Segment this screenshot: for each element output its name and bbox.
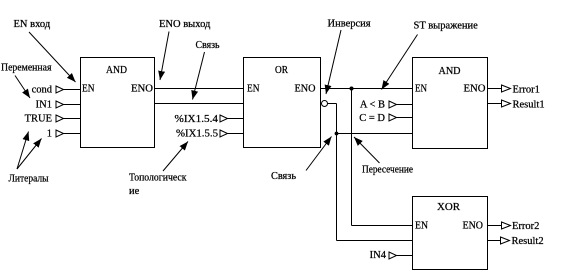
input connector triangle A < B: [389, 101, 397, 108]
block XOR (bottom right XOR function block): [413, 197, 488, 270]
callout label Svyaz bottom: [271, 171, 296, 182]
svg-text:Error1: Error1: [513, 85, 540, 96]
output label Result2: [512, 236, 544, 247]
wire A < B to AND2: [397, 104, 413, 106]
callout label Literaly: [9, 174, 49, 185]
output connector triangle Error2: [502, 222, 511, 229]
callout label Topologicheskie line 1: [129, 173, 187, 184]
wire AND1 ENO to OR EN: [155, 88, 244, 90]
svg-text:ENO: ENO: [131, 84, 153, 95]
svg-text:AND: AND: [106, 65, 127, 76]
callout label Topologicheskie line 2: [129, 186, 140, 197]
wire AND2 ENO output: [488, 88, 502, 90]
input connector triangle TRUE: [56, 115, 64, 122]
svg-text:Result2: Result2: [512, 236, 544, 247]
input label %IX1.5.4: [175, 114, 219, 125]
svg-text:Литералы: Литералы: [9, 174, 49, 185]
wire AND2 result output: [488, 103, 502, 105]
svg-text:OR: OR: [275, 65, 288, 76]
svg-text:A < B: A < B: [360, 100, 385, 111]
svg-text:Error2: Error2: [512, 221, 539, 232]
block AND1 (left AND function block): [81, 58, 155, 148]
callout arrow ENO vyhod to ENO wire: [160, 32, 169, 81]
input label C = D: [359, 113, 385, 124]
wire vertical from inverted output down: [336, 104, 338, 241]
callout arrow Peresechenie to wire crossing: [354, 137, 380, 163]
svg-text:ие: ие: [129, 186, 140, 197]
wire OR ENO to AND2 EN: [321, 88, 413, 90]
input label IN1: [36, 100, 52, 111]
callout arrow Svyaz bottom to junction: [306, 137, 332, 171]
wire IN4 to XOR: [397, 255, 413, 257]
junction node at AND2 bottom input branch: [335, 132, 339, 136]
svg-text:Пересечение: Пересечение: [362, 165, 413, 176]
svg-text:Переменная: Переменная: [1, 63, 52, 74]
callout arrow Peremennaya to variable inputs: [15, 76, 30, 99]
block OR (middle OR function block): [244, 58, 321, 148]
svg-text:ENO: ENO: [464, 84, 486, 95]
svg-text:ENO выход: ENO выход: [159, 19, 211, 30]
wire TRUE to AND1: [64, 118, 81, 120]
svg-text:EN: EN: [415, 221, 428, 232]
svg-text:XOR: XOR: [437, 202, 460, 213]
output connector triangle Result1: [502, 100, 511, 107]
input label TRUE: [25, 114, 52, 125]
wire to AND2 bottom input: [337, 133, 413, 135]
input label %IX1.5.5: [176, 129, 218, 140]
svg-text:%IX1.5.4: %IX1.5.4: [175, 114, 219, 125]
wire AND1 output to OR input 2: [155, 103, 244, 105]
input connector triangle 1: [56, 130, 64, 137]
svg-text:ST выражение: ST выражение: [414, 21, 479, 32]
callout label ENO vyhod: [159, 19, 211, 30]
wire C = D to AND2: [397, 117, 413, 119]
svg-text:TRUE: TRUE: [25, 114, 52, 125]
callout label Svyaz top: [196, 40, 220, 51]
svg-text:Топологическ: Топологическ: [129, 173, 187, 184]
input connector triangle cond: [56, 86, 64, 93]
callout arrow Inversiya to inversion circle: [326, 30, 341, 94]
svg-text:C = D: C = D: [359, 113, 385, 124]
input connector triangle IN4: [389, 252, 397, 259]
svg-text:ENO: ENO: [463, 221, 484, 232]
wire IN1 to AND1: [64, 104, 81, 106]
callout arrow EN vhod to AND1 EN: [29, 32, 76, 82]
callout label Peremennaya: [1, 63, 52, 74]
input label cond: [32, 85, 53, 96]
svg-text:EN: EN: [247, 84, 260, 95]
wire horizontal to XOR EN: [352, 225, 413, 227]
svg-text:Связь: Связь: [196, 40, 220, 51]
inversion circle on OR output: [322, 101, 328, 107]
wire %IX1.5.5 to OR: [228, 133, 244, 135]
callout arrow ST vyrazhenie to A < B expression: [382, 35, 418, 90]
input label IN4: [370, 250, 387, 261]
input label A < B: [360, 100, 385, 111]
svg-text:%IX1.5.5: %IX1.5.5: [176, 129, 218, 140]
junction node on ENO wire: [350, 87, 354, 91]
wire %IX1.5.4 to OR: [228, 118, 244, 120]
callout arrow Topologicheskie to %IX1.5.5: [163, 142, 188, 172]
svg-text:Инверсия: Инверсия: [328, 19, 371, 30]
svg-text:EN: EN: [82, 84, 95, 95]
wire XOR result output: [488, 240, 501, 242]
wire cond to AND1 EN: [64, 89, 81, 91]
svg-text:AND: AND: [439, 66, 461, 77]
input connector triangle %IX1.5.5: [220, 130, 228, 137]
wire OR inverted output horizontal stub: [328, 103, 337, 105]
output connector triangle Result2: [501, 237, 510, 244]
callout label Inversiya: [328, 19, 371, 30]
callout arrow Literaly to TRUE literal: [17, 132, 29, 170]
svg-text:Связь: Связь: [271, 171, 296, 182]
input connector triangle %IX1.5.4: [220, 115, 228, 122]
input label 1: [47, 129, 52, 140]
wire XOR ENO output: [488, 225, 502, 227]
output label Result1: [513, 100, 545, 111]
block AND2 (right AND function block): [413, 58, 488, 149]
output label Error1: [513, 85, 540, 96]
input connector triangle C = D: [389, 114, 397, 121]
svg-text:IN4: IN4: [370, 250, 387, 261]
callout label EN vhod: [14, 19, 51, 30]
wire 1 to AND1: [64, 133, 81, 135]
output connector triangle Error1: [502, 85, 511, 92]
svg-text:IN1: IN1: [36, 100, 52, 111]
callout arrow Svyaz top to connection wire: [193, 52, 205, 100]
wire vertical from ENO junction down to XOR EN: [351, 89, 353, 226]
callout arrow Literaly to 1 literal: [17, 139, 42, 170]
svg-text:ENO: ENO: [295, 84, 316, 95]
output label Error2: [512, 221, 539, 232]
input connector triangle IN1: [56, 101, 64, 108]
svg-text:EN: EN: [415, 84, 427, 95]
svg-text:1: 1: [47, 129, 52, 140]
callout label Peresechenie: [362, 165, 413, 176]
svg-text:cond: cond: [32, 85, 53, 96]
svg-text:EN вход: EN вход: [14, 19, 51, 30]
callout label ST vyrazhenie: [414, 21, 479, 32]
svg-text:Result1: Result1: [513, 100, 545, 111]
wire horizontal to XOR input 2: [337, 240, 413, 242]
